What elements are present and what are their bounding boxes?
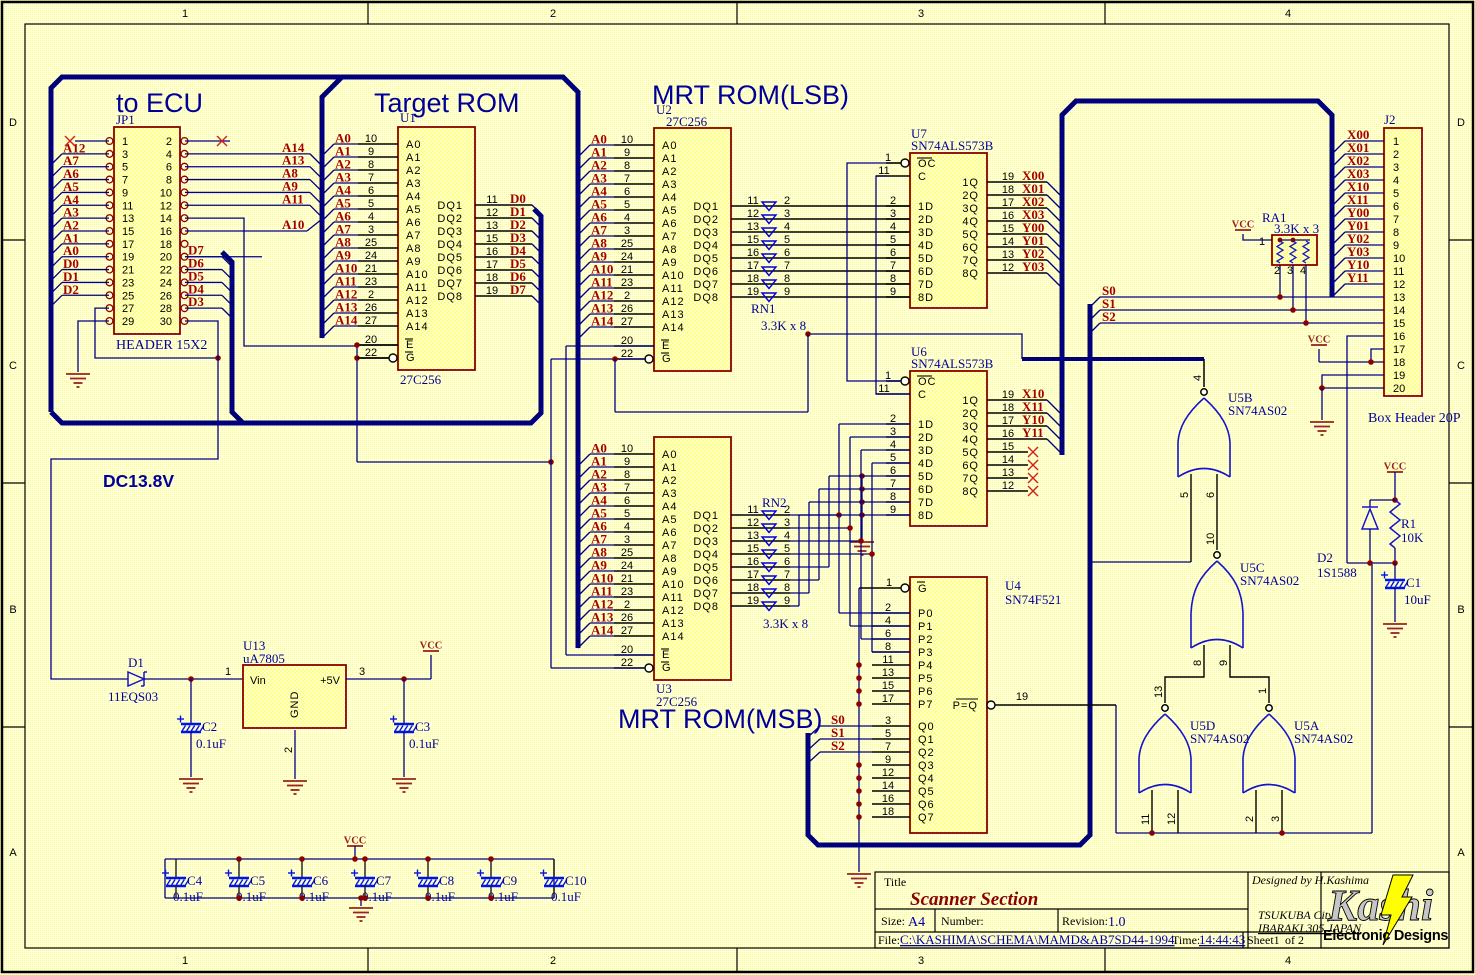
- wire U3 DQ2 through RN2 resistor: [731, 517, 790, 529]
- svg-text:D3: D3: [188, 294, 204, 309]
- svg-text:15: 15: [1002, 441, 1014, 453]
- wire net A9 bus to U2: [578, 249, 614, 275]
- data bus D0-D7 + group outline bottom edge: [51, 209, 541, 423]
- svg-text:11: 11: [1140, 814, 1152, 825]
- svg-text:A2: A2: [662, 166, 677, 178]
- wire net D0 JP1 left: [51, 256, 109, 281]
- wire net A10 JP1 pin16: [185, 217, 322, 232]
- wire RA1 pin4 to S2: [1303, 265, 1309, 326]
- VCC symbol above R1: [1384, 462, 1407, 501]
- svg-text:6D: 6D: [918, 484, 934, 496]
- svg-text:DQ4: DQ4: [693, 549, 719, 561]
- svg-text:G: G: [662, 353, 672, 365]
- wire net A0 bus to U2: [578, 132, 614, 158]
- wire net A4 bus to U3: [578, 493, 614, 519]
- svg-text:C8: C8: [439, 873, 454, 888]
- wire U5D inputs 11,12: [1140, 790, 1178, 833]
- wire net X10 from U6 1Q to bus: [987, 386, 1062, 415]
- wire JP1 pin 27 to DC node: [95, 308, 218, 358]
- wire JP1 pin 29 to ground: [78, 321, 109, 372]
- svg-text:7: 7: [122, 175, 128, 187]
- svg-text:10: 10: [160, 187, 172, 199]
- capacitor C2 0.1uF: [177, 679, 226, 777]
- svg-text:16: 16: [1002, 210, 1014, 222]
- wire U3 DQ7 through RN2 resistor: [731, 582, 790, 594]
- wire DC13.8V feed from JP1: [51, 358, 218, 679]
- wire net A5 bus to U1: [322, 196, 358, 222]
- svg-text:Q0: Q0: [918, 721, 935, 733]
- svg-text:11: 11: [882, 654, 893, 666]
- svg-text:A10: A10: [406, 269, 429, 281]
- svg-text:C: C: [918, 171, 927, 183]
- svg-text:4: 4: [1393, 175, 1399, 187]
- wire net A6 JP1 left: [51, 166, 109, 191]
- wire net A7 bus to U1: [322, 222, 358, 248]
- svg-text:A3: A3: [406, 178, 421, 190]
- svg-text:A12: A12: [406, 295, 429, 307]
- svg-text:SN74AS02: SN74AS02: [1228, 403, 1287, 418]
- svg-text:A14: A14: [591, 314, 614, 329]
- bus/outline around U4 comparator section: [808, 304, 1090, 845]
- svg-text:2D: 2D: [918, 432, 934, 444]
- svg-text:21: 21: [122, 265, 134, 277]
- svg-text:0.1uF: 0.1uF: [196, 736, 226, 751]
- svg-text:DQ4: DQ4: [437, 239, 463, 251]
- svg-text:4: 4: [784, 221, 790, 233]
- svg-text:A5: A5: [662, 514, 677, 526]
- wire JP1 pin 1 no-connect: [65, 136, 109, 146]
- svg-text:P2: P2: [918, 634, 933, 646]
- svg-text:6: 6: [784, 247, 790, 259]
- wire net A13 JP1 to address bus: [185, 153, 322, 179]
- svg-text:A13: A13: [662, 309, 685, 321]
- svg-text:C10: C10: [565, 873, 587, 888]
- wire net A4 JP1 left: [51, 192, 109, 217]
- svg-text:B: B: [9, 604, 16, 616]
- svg-text:3: 3: [890, 208, 896, 220]
- svg-text:16: 16: [747, 247, 759, 259]
- svg-text:8: 8: [890, 491, 896, 503]
- wire JP1 pin14 to ROM enable chain: [185, 218, 357, 346]
- svg-text:SN74AS02: SN74AS02: [1294, 731, 1353, 746]
- wire net A3 bus to U2: [578, 171, 614, 197]
- svg-text:A11: A11: [662, 283, 684, 295]
- wire net D7 U1 DQ8 output: [475, 282, 541, 305]
- svg-text:4Q: 4Q: [962, 434, 979, 446]
- svg-text:3: 3: [885, 715, 891, 727]
- address bus entry stub between JP1 and U1: [322, 77, 342, 338]
- svg-text:8: 8: [1393, 227, 1399, 239]
- svg-text:DQ6: DQ6: [437, 265, 463, 277]
- svg-text:6: 6: [368, 185, 374, 197]
- svg-text:A14: A14: [335, 313, 358, 328]
- voltage regulator U13 uA7805: [243, 638, 346, 728]
- svg-text:J2: J2: [1384, 112, 1396, 127]
- diode D1 11EQS03: [108, 655, 158, 704]
- svg-text:27: 27: [365, 315, 377, 327]
- wire net S2 to J2 pin 15: [1089, 309, 1384, 334]
- VCC symbol at J2: [1308, 335, 1331, 346]
- svg-text:A9: A9: [662, 257, 677, 269]
- svg-text:3.3K x 8: 3.3K x 8: [761, 318, 806, 333]
- wire net A2 bus to U3: [578, 467, 614, 493]
- svg-text:A9: A9: [406, 256, 421, 268]
- wire U13 +5V output to VCC: [346, 655, 431, 682]
- svg-text:12: 12: [882, 767, 894, 779]
- svg-text:4: 4: [624, 521, 630, 533]
- svg-text:9: 9: [784, 286, 790, 298]
- svg-text:A0: A0: [662, 449, 677, 461]
- capacitor C7 0.1uF: [351, 856, 392, 904]
- title block: [875, 872, 1449, 948]
- svg-text:A1: A1: [406, 152, 421, 164]
- wire net X03 from U7 4Q to bus: [987, 207, 1062, 236]
- svg-text:19: 19: [1016, 691, 1028, 703]
- svg-text:20: 20: [621, 335, 633, 347]
- svg-text:9: 9: [784, 595, 790, 607]
- svg-text:of 2: of 2: [1285, 933, 1304, 947]
- svg-text:24: 24: [160, 277, 172, 289]
- svg-text:A1: A1: [662, 462, 677, 474]
- svg-text:21: 21: [365, 263, 377, 275]
- svg-text:A12: A12: [662, 296, 685, 308]
- svg-text:1: 1: [1257, 688, 1269, 694]
- svg-text:6: 6: [166, 162, 172, 174]
- svg-text:10: 10: [1393, 253, 1405, 265]
- svg-text:23: 23: [621, 277, 633, 289]
- svg-text:Vin: Vin: [250, 675, 266, 687]
- wire U6 8Q unused output: [987, 480, 1038, 496]
- svg-text:25: 25: [621, 238, 633, 250]
- svg-text:7: 7: [890, 260, 896, 272]
- svg-text:5D: 5D: [918, 253, 934, 265]
- svg-text:6: 6: [1393, 201, 1399, 213]
- svg-text:P0: P0: [918, 608, 933, 620]
- svg-text:17: 17: [1393, 344, 1405, 356]
- svg-text:7: 7: [368, 172, 374, 184]
- svg-text:2: 2: [890, 413, 896, 425]
- svg-text:27: 27: [621, 625, 633, 637]
- svg-text:OC: OC: [918, 376, 937, 388]
- wire U5C input pin 9 from U5A output: [1218, 645, 1269, 703]
- wire D2/R1 junction node: [1347, 560, 1398, 566]
- wire net A12 bus to U2: [578, 288, 614, 314]
- svg-text:5: 5: [885, 728, 891, 740]
- svg-text:4D: 4D: [918, 458, 934, 470]
- wire net A12 JP1 left: [51, 140, 109, 165]
- svg-text:9: 9: [890, 286, 896, 298]
- wire net D5 U1 DQ6 output: [475, 256, 541, 279]
- svg-text:U1: U1: [400, 110, 416, 125]
- svg-text:C1: C1: [1406, 575, 1421, 590]
- wire net A11 bus to U1: [322, 274, 358, 300]
- svg-text:4: 4: [1285, 8, 1291, 20]
- resistor network RN2 element 6: [762, 576, 776, 585]
- svg-text:4: 4: [1300, 265, 1306, 277]
- wire net A5 bus to U3: [578, 506, 614, 532]
- wire net Y00 bus to J2 pin 7: [1332, 205, 1384, 232]
- svg-text:2: 2: [1274, 265, 1280, 277]
- svg-text:RN2: RN2: [762, 495, 787, 510]
- svg-text:5: 5: [784, 543, 790, 555]
- svg-text:A2: A2: [406, 165, 421, 177]
- wire U3 DQ1 through RN2 resistor: [731, 504, 790, 516]
- svg-text:8: 8: [166, 175, 172, 187]
- svg-text:18: 18: [160, 239, 172, 251]
- diode D2 1S1588: [1317, 500, 1395, 580]
- ground symbol below cap rail: [349, 895, 373, 921]
- wire net A6 bus to U1: [322, 209, 358, 235]
- svg-text:Q2: Q2: [918, 747, 935, 759]
- svg-text:3D: 3D: [918, 445, 934, 457]
- wire net Y01 from U7 6Q to bus: [987, 233, 1062, 262]
- EPROM U1 27C256: [358, 110, 475, 387]
- svg-text:14: 14: [1002, 236, 1014, 248]
- svg-text:4: 4: [784, 530, 790, 542]
- wire net D1 JP1 left: [51, 269, 109, 294]
- svg-text:18: 18: [1002, 184, 1014, 196]
- svg-text:9: 9: [624, 456, 630, 468]
- svg-text:RN1: RN1: [751, 301, 776, 316]
- svg-text:C2: C2: [202, 719, 217, 734]
- ground symbol below U4: [847, 874, 871, 887]
- wire net A7 bus to U3: [578, 532, 614, 558]
- svg-text:25: 25: [365, 237, 377, 249]
- svg-text:29: 29: [122, 316, 134, 328]
- wire net Y00 from U7 5Q to bus: [987, 220, 1062, 249]
- wire net A12 bus to U3: [578, 597, 614, 623]
- ground symbol below C2: [179, 779, 203, 792]
- wire U3 G net: [551, 667, 645, 669]
- resistor network RN2 element 8: [762, 602, 776, 611]
- wire net A1 bus to U1: [322, 144, 358, 170]
- NOR gate U5A SN74AS02: [1243, 705, 1353, 793]
- svg-text:12: 12: [1393, 279, 1405, 291]
- svg-text:7Q: 7Q: [962, 255, 979, 267]
- wire U5C input pin 8 from U5D output: [1153, 645, 1204, 703]
- capacitor C5 0.1uF: [225, 856, 266, 904]
- svg-text:VCC: VCC: [1232, 220, 1255, 231]
- wire net X02 bus to J2 pin 3: [1332, 153, 1384, 180]
- latch U7 SN74ALS573B: [876, 126, 994, 308]
- wire net A2 bus to U2: [578, 158, 614, 184]
- svg-text:Q1: Q1: [918, 734, 935, 746]
- svg-text:2: 2: [885, 602, 891, 614]
- svg-text:5: 5: [890, 452, 896, 464]
- svg-text:13: 13: [747, 530, 759, 542]
- ground symbol at J2: [1310, 422, 1334, 435]
- wire net A14 bus to U3: [578, 623, 614, 649]
- svg-text:Number:: Number:: [941, 914, 984, 928]
- ground symbol below JP1: [66, 374, 90, 387]
- wire net X00 from U7 1Q to bus: [987, 168, 1062, 197]
- svg-text:9: 9: [122, 187, 128, 199]
- svg-text:A4: A4: [406, 191, 421, 203]
- svg-text:11EQS03: 11EQS03: [108, 689, 158, 704]
- svg-text:8D: 8D: [918, 510, 934, 522]
- svg-text:20: 20: [160, 252, 172, 264]
- svg-text:10: 10: [1205, 533, 1217, 545]
- wire U7 C to U6 C (clock chain): [876, 176, 910, 394]
- svg-text:TSUKUBA City,: TSUKUBA City,: [1258, 908, 1336, 922]
- resistor network RN1 element 1: [762, 202, 776, 211]
- wire D2 node down to gate inputs: [1371, 563, 1373, 833]
- svg-text:4: 4: [890, 221, 896, 233]
- svg-text:1: 1: [122, 136, 128, 148]
- svg-text:DQ1: DQ1: [693, 201, 719, 213]
- svg-text:A13: A13: [662, 618, 685, 630]
- wire net D2 U1 DQ3 output: [475, 217, 541, 240]
- svg-text:6: 6: [624, 495, 630, 507]
- svg-text:5Q: 5Q: [962, 229, 979, 241]
- capacitor C8 0.1uF: [414, 856, 455, 904]
- svg-text:C5: C5: [250, 873, 265, 888]
- svg-text:7: 7: [890, 478, 896, 490]
- wire net A2 JP1 left: [51, 217, 109, 242]
- svg-text:P4: P4: [918, 660, 933, 672]
- svg-text:GND: GND: [289, 691, 301, 718]
- svg-text:14: 14: [882, 780, 894, 792]
- svg-text:8: 8: [1192, 660, 1204, 666]
- svg-text:24: 24: [365, 250, 377, 262]
- wire net A6 bus to U2: [578, 210, 614, 236]
- svg-text:7D: 7D: [918, 279, 934, 291]
- svg-text:26: 26: [365, 302, 377, 314]
- wires MSB data bits to U6 and U4 (mesh): [790, 424, 910, 652]
- svg-text:Q6: Q6: [918, 799, 935, 811]
- svg-text:8: 8: [784, 582, 790, 594]
- svg-text:SN74F521: SN74F521: [1005, 592, 1061, 607]
- svg-text:Box Header 20P: Box Header 20P: [1368, 411, 1461, 426]
- wire net D5 JP1 to data bus: [185, 268, 232, 292]
- wire U3 DQ4 through RN2 resistor: [731, 543, 790, 555]
- svg-text:12: 12: [1002, 262, 1014, 274]
- svg-text:DQ7: DQ7: [437, 278, 463, 290]
- svg-text:DQ1: DQ1: [437, 200, 463, 212]
- svg-text:1: 1: [1393, 136, 1399, 148]
- wire net D3 U1 DQ4 output: [475, 230, 541, 253]
- wire J2 pin16 to P=Q net: [1347, 336, 1384, 563]
- svg-text:A14: A14: [591, 623, 614, 638]
- svg-text:9: 9: [885, 754, 891, 766]
- svg-text:2: 2: [1393, 149, 1399, 161]
- svg-text:30: 30: [160, 316, 172, 328]
- capacitor C6 0.1uF: [288, 856, 329, 904]
- svg-text:D: D: [9, 117, 17, 129]
- svg-text:1: 1: [885, 370, 891, 382]
- svg-text:DQ3: DQ3: [693, 227, 719, 239]
- svg-text:DC13.8V: DC13.8V: [103, 471, 174, 491]
- svg-text:15: 15: [882, 680, 894, 692]
- capacitor C3 0.1uF: [390, 679, 439, 777]
- svg-text:16: 16: [160, 226, 172, 238]
- svg-text:3Q: 3Q: [962, 421, 979, 433]
- svg-text:17: 17: [1002, 197, 1014, 209]
- latch U6 SN74ALS573B: [876, 344, 994, 526]
- svg-text:A4: A4: [662, 192, 677, 204]
- svg-text:4: 4: [368, 211, 374, 223]
- svg-text:4Q: 4Q: [962, 216, 979, 228]
- svg-text:19: 19: [747, 595, 759, 607]
- wire net A13 bus to U3: [578, 610, 614, 636]
- wire net X00 bus to J2 pin 1: [1332, 127, 1384, 154]
- svg-text:DQ8: DQ8: [693, 292, 719, 304]
- svg-text:P=Q: P=Q: [953, 700, 978, 712]
- svg-text:7: 7: [885, 741, 891, 753]
- ground symbol below C1: [1383, 624, 1407, 637]
- wire net Y01 bus to J2 pin 8: [1332, 218, 1384, 245]
- svg-text:DQ3: DQ3: [693, 536, 719, 548]
- svg-text:A13: A13: [406, 308, 429, 320]
- svg-text:File:: File:: [878, 933, 900, 947]
- svg-text:A10: A10: [662, 579, 685, 591]
- wire net D3 JP1 to data bus: [185, 294, 232, 318]
- svg-text:4: 4: [1192, 375, 1204, 381]
- wire net S0 to J2 pin 13: [1089, 283, 1384, 308]
- VCC symbol at U13 output: [420, 641, 443, 652]
- svg-text:D: D: [1457, 117, 1465, 129]
- svg-text:6: 6: [624, 186, 630, 198]
- wire net A4 bus to U2: [578, 184, 614, 210]
- svg-text:1: 1: [1259, 236, 1265, 248]
- wire net A3 bus to U1: [322, 170, 358, 196]
- wire net A5 bus to U2: [578, 197, 614, 223]
- wire U2 G net: [551, 356, 808, 412]
- wire net A13 bus to U1: [322, 300, 358, 326]
- wire U2 DQ7 through RN1 resistor to U7: [731, 273, 910, 285]
- svg-text:12: 12: [486, 207, 498, 219]
- svg-text:2Q: 2Q: [962, 190, 979, 202]
- wire U13 GND pin 2: [283, 730, 295, 779]
- connector JP1 HEADER 15X2: [106, 112, 207, 353]
- svg-text:SN74AS02: SN74AS02: [1240, 573, 1299, 588]
- svg-text:25: 25: [621, 547, 633, 559]
- svg-text:G: G: [406, 352, 416, 364]
- svg-text:4: 4: [166, 149, 172, 161]
- svg-text:3: 3: [890, 426, 896, 438]
- NOR gate U5B SN74AS02: [1178, 375, 1287, 477]
- svg-text:15: 15: [122, 226, 134, 238]
- wire net A1 JP1 left: [51, 230, 109, 255]
- svg-text:11: 11: [747, 504, 758, 516]
- logo Kashi Electronic Designs: [1323, 875, 1448, 945]
- junction VCC node: [1392, 497, 1398, 503]
- svg-text:6D: 6D: [918, 266, 934, 278]
- svg-text:3: 3: [359, 666, 365, 678]
- svg-text:3: 3: [784, 517, 790, 529]
- wire net A0 JP1 left: [51, 243, 109, 268]
- svg-text:12: 12: [1166, 813, 1178, 825]
- svg-text:A5: A5: [406, 204, 421, 216]
- wire U2 DQ6 through RN1 resistor to U7: [731, 260, 910, 272]
- svg-text:11: 11: [1393, 266, 1404, 278]
- svg-text:9: 9: [624, 147, 630, 159]
- svg-text:10K: 10K: [1401, 530, 1424, 545]
- svg-text:Q5: Q5: [918, 786, 935, 798]
- svg-text:9: 9: [890, 504, 896, 516]
- resistor network RN1 element 3: [762, 228, 776, 237]
- wire U6 5Q unused output: [987, 441, 1038, 457]
- svg-text:VCC: VCC: [420, 641, 443, 652]
- svg-text:11: 11: [122, 200, 133, 212]
- svg-text:19: 19: [747, 286, 759, 298]
- svg-text:A14: A14: [662, 322, 685, 334]
- svg-text:22: 22: [160, 265, 172, 277]
- wire U2 DQ5 through RN1 resistor to U7: [731, 247, 910, 259]
- svg-text:A6: A6: [662, 218, 677, 230]
- svg-text:24: 24: [621, 251, 633, 263]
- svg-text:19: 19: [1393, 370, 1405, 382]
